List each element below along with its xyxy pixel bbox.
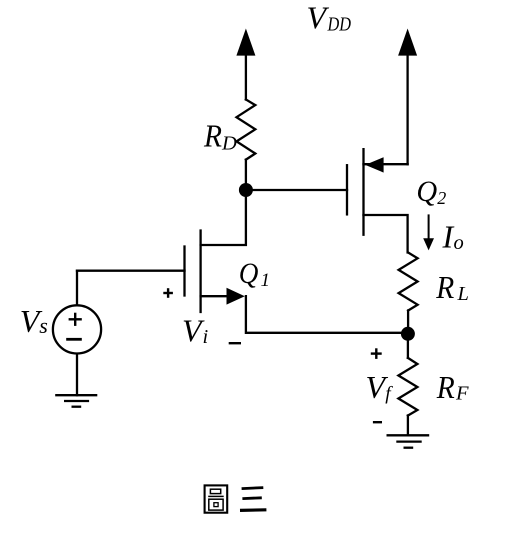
- svg-text:Q: Q: [239, 258, 259, 290]
- node A junction dot: [239, 183, 253, 197]
- ground right: [387, 434, 430, 436]
- wire VDD arrow stem right: [406, 53, 408, 164]
- current Io arrow stem: [428, 214, 430, 240]
- plus sign Q1 gate: [163, 292, 173, 294]
- wire RL bottom to node B: [407, 311, 409, 334]
- svg-text:Q: Q: [416, 175, 437, 208]
- plus sign VS: [69, 318, 82, 320]
- svg-text:R: R: [203, 119, 222, 154]
- wire VDD arrow stem left: [245, 53, 247, 100]
- wire node A down to Q1 drain: [201, 190, 246, 245]
- resistor RL: [399, 253, 418, 311]
- svg-text:2: 2: [437, 188, 446, 208]
- wire Q1 source down to feedback: [246, 296, 408, 333]
- wire RF bottom to ground: [407, 416, 409, 436]
- caption character TU (drawn): [205, 485, 228, 512]
- wire VS top to Q1 gate: [76, 271, 78, 305]
- resistor RD: [237, 100, 256, 160]
- transistor Q2 channel bar: [362, 149, 364, 235]
- wire VS bottom to ground: [76, 355, 78, 396]
- wire node B to RF: [407, 334, 409, 358]
- svg-text:R: R: [435, 270, 454, 305]
- wire node A to Q2 gate: [246, 189, 347, 191]
- power arrow head left: [236, 29, 255, 56]
- minus sign VS: [66, 338, 82, 341]
- current Io arrowhead: [423, 238, 434, 250]
- transistor Q1 channel bar: [199, 231, 201, 313]
- svg-text:F: F: [455, 383, 469, 405]
- wire RD bottom to node A: [245, 160, 247, 190]
- caption character SAN (drawn): [240, 488, 266, 511]
- ground left: [55, 394, 97, 396]
- source VS circle: [53, 305, 101, 353]
- wire Q1 gate lead: [77, 270, 185, 272]
- wire Q2 source top lead: [364, 163, 408, 165]
- svg-text:L: L: [457, 283, 469, 305]
- wire Q2 drain bottom lead: [364, 215, 408, 253]
- wire Q1 source lead: [201, 295, 232, 297]
- resistor RF: [398, 358, 417, 416]
- transistor Q2 source arrowhead: [365, 157, 383, 172]
- transistor Q1 source arrowhead: [227, 288, 245, 305]
- minus sign Vf: [373, 421, 382, 423]
- svg-text:1: 1: [261, 270, 271, 291]
- svg-text:i: i: [203, 326, 209, 348]
- transistor Q1 gate bar: [183, 247, 185, 296]
- minus sign Vi: [229, 342, 241, 344]
- svg-text:R: R: [436, 370, 455, 405]
- svg-text:DD: DD: [327, 13, 351, 35]
- power arrow head right: [398, 29, 417, 56]
- svg-text:D: D: [221, 133, 237, 155]
- node B junction dot: [401, 327, 415, 341]
- transistor Q2 gate bar: [346, 165, 348, 214]
- svg-text:o: o: [454, 232, 464, 254]
- svg-text:s: s: [39, 313, 48, 338]
- plus sign Vf: [371, 352, 382, 354]
